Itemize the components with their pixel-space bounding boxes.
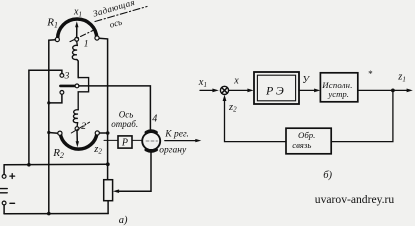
svg-text:x1: x1 (198, 77, 207, 89)
label RE (265, 83, 286, 97)
shaft reducer to motor (132, 139, 142, 141)
R1 right terminal circle (95, 36, 99, 40)
relay armature pivot circle (75, 84, 79, 88)
label z2 feedback (228, 102, 237, 114)
svg-text:1: 1 (84, 40, 89, 50)
pin label 1 (84, 40, 89, 50)
svg-text:ось: ось (108, 17, 123, 30)
motor brush lower (146, 150, 156, 151)
junction R2 left (47, 131, 50, 134)
label a) subfigure (119, 215, 128, 226)
svg-text:устр.: устр. (327, 89, 349, 99)
svg-text:x1: x1 (73, 7, 82, 19)
wire lower contact to minus column (49, 94, 62, 103)
svg-text:2: 2 (81, 122, 86, 132)
R1 wiper arrow x1 (75, 21, 78, 37)
relay fixed contact 3 upper (60, 74, 64, 78)
svg-text:z2: z2 (93, 144, 102, 156)
svg-text:К рег.: К рег. (164, 129, 189, 139)
svg-text:z1: z1 (397, 72, 406, 84)
label z2 wiper (93, 144, 102, 156)
svg-text:R2: R2 (52, 147, 64, 160)
R1 wiper pivot circle (75, 37, 79, 41)
label K reg. organu (159, 129, 189, 155)
pin label 2 (81, 122, 86, 132)
reducer box P (118, 136, 132, 148)
wire feedback to summer (223, 95, 286, 142)
wire armature to motor (79, 86, 150, 131)
label Os otrab (working axis) (111, 109, 138, 129)
junction lower contact (47, 101, 50, 104)
battery DC symbol (0, 189, 7, 193)
wire R2 right end to right column (99, 132, 106, 134)
wire summer to RE (229, 89, 254, 93)
label b) subfigure (323, 170, 332, 181)
resistor (rheostat) body (104, 180, 113, 201)
label Obr svyaz (292, 130, 315, 150)
wire output with arrow z1 (358, 89, 413, 93)
svg-text:б): б) (323, 170, 332, 181)
R2 wiper arrow (76, 131, 79, 148)
wire input arrow (200, 89, 219, 93)
label U control (302, 75, 310, 86)
wire resistor to minus bus (107, 201, 109, 214)
junction output branch (391, 89, 395, 93)
summing junction (220, 86, 228, 94)
potentiometer R1 arc (58, 19, 97, 39)
junction R2 right column (106, 131, 110, 135)
junction plus bus right column (106, 162, 110, 166)
wire coil to relay jog (77, 60, 78, 78)
svg-text:*: * (368, 69, 373, 79)
junction plus rail (27, 163, 31, 167)
svg-text:связь: связь (292, 140, 311, 150)
block actuator Ispoln ustr (320, 73, 357, 102)
block feedback Obr svyaz (286, 128, 331, 154)
svg-text:РЭ: РЭ (265, 83, 286, 97)
label x1 (73, 7, 82, 19)
wire R1 left end down left column (49, 40, 56, 214)
wire upper contact to plus rail (29, 70, 62, 164)
working-axis dash-dot through R2 wiper (71, 122, 89, 133)
relay armature contact arm (60, 85, 74, 88)
wire R1 right end to right column (99, 38, 108, 180)
node: setting-axis upper dash-dot line (95, 7, 147, 22)
svg-text:Р: Р (121, 138, 128, 149)
R2 right terminal circle (95, 131, 99, 135)
asterisk speck (368, 69, 373, 79)
junction left column bottom bus (47, 212, 51, 216)
label Ispoln ustr (321, 80, 352, 99)
shaft dash inside motor (146, 140, 158, 142)
label 4 (152, 114, 157, 125)
label x1 input (198, 77, 207, 89)
wire plus bus (4, 163, 108, 166)
svg-text:3: 3 (64, 72, 70, 82)
label x error (233, 76, 239, 87)
R1 left terminal circle (55, 37, 59, 41)
motor brush upper (146, 131, 156, 132)
svg-text:R1: R1 (46, 17, 58, 30)
svg-text:Обр.: Обр. (298, 130, 315, 140)
wire R2 left end to left column (49, 132, 58, 135)
relay coil winding lower (73, 110, 78, 127)
label P (121, 138, 128, 149)
shaft reducer left (104, 139, 118, 141)
wire relay jog around armature pivot (78, 78, 88, 110)
svg-text:отраб.: отраб. (111, 119, 138, 129)
rheostat wiper arrow from motor (113, 150, 151, 193)
svg-text:Ось: Ось (119, 109, 134, 119)
block RE relay element (254, 72, 299, 104)
output arrow K reg organu (165, 139, 202, 142)
watermark uvarov-andrey.ru (315, 193, 395, 206)
R2 left terminal circle (58, 131, 62, 135)
node: setting-axis dash-dot through R1 wiper (70, 29, 96, 41)
wire RE to actuator (299, 89, 320, 93)
label R1 (46, 17, 58, 30)
battery minus terminal (2, 201, 6, 214)
wire feedback right branch (331, 90, 393, 141)
label z1 (397, 72, 406, 84)
label R2 (52, 147, 64, 160)
relay fixed contact lower (60, 91, 64, 95)
svg-text:z2: z2 (228, 102, 237, 114)
pin label 3 (64, 72, 70, 82)
svg-text:а): а) (119, 215, 128, 226)
label Zadayushchaya os (setting axis) (92, 0, 136, 30)
svg-text:У: У (302, 75, 310, 86)
motor M4 circle (142, 132, 160, 150)
svg-text:uvarov-andrey.ru: uvarov-andrey.ru (315, 193, 395, 206)
relay coil winding upper (72, 41, 77, 59)
battery plus terminal (2, 165, 6, 179)
svg-text:органу: органу (159, 146, 187, 156)
svg-text:4: 4 (152, 114, 157, 125)
label minus (10, 202, 15, 204)
label plus (10, 174, 15, 179)
svg-text:x: x (233, 76, 239, 87)
potentiometer R2 arc (60, 133, 97, 149)
wire minus bus (4, 213, 108, 215)
R2 wiper pivot circle (75, 127, 79, 131)
